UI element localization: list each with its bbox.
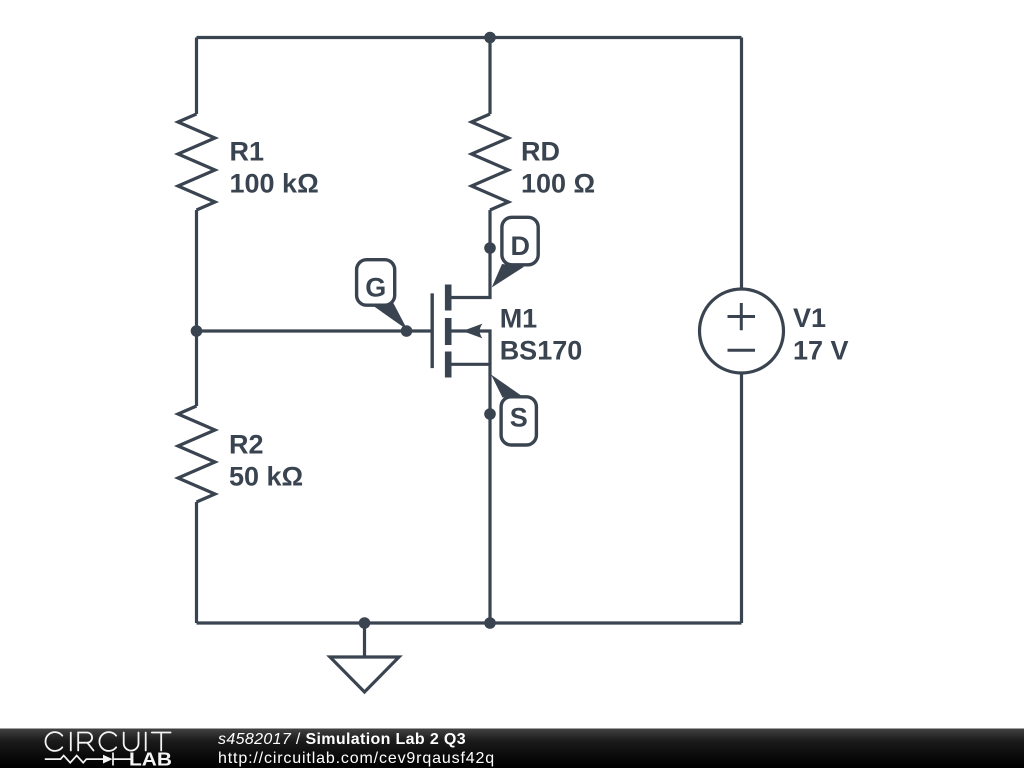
svg-text:100 kΩ: 100 kΩ <box>230 169 319 199</box>
svg-text:R2: R2 <box>229 429 264 459</box>
svg-text:M1: M1 <box>500 304 538 334</box>
voltage source V1 <box>700 289 784 373</box>
resistor R1 <box>178 114 215 210</box>
node dot bottom mid <box>484 617 496 629</box>
node flag S <box>491 375 536 446</box>
svg-text:s4582017 / Simulation Lab 2 Q3: s4582017 / Simulation Lab 2 Q3 <box>218 731 466 748</box>
label RD value <box>521 137 595 199</box>
node dot gate left tap <box>191 325 203 337</box>
svg-text:S: S <box>510 403 528 433</box>
svg-text:R1: R1 <box>230 137 265 167</box>
wire left column middle <box>195 210 198 406</box>
wire right column lower <box>740 373 743 624</box>
transistor M1 <box>432 285 490 378</box>
svg-text:G: G <box>365 272 386 302</box>
resistor R2 <box>178 406 215 502</box>
svg-text:50 kΩ: 50 kΩ <box>229 461 303 491</box>
label R2 value <box>229 429 303 491</box>
label R1 value <box>230 137 319 199</box>
svg-text:V1: V1 <box>793 303 826 333</box>
svg-text:D: D <box>510 231 530 261</box>
logo circuit doodle <box>45 753 131 766</box>
svg-text:100 Ω: 100 Ω <box>521 169 595 199</box>
svg-text:LAB: LAB <box>129 749 172 768</box>
wire gate <box>197 329 433 332</box>
wire right column upper <box>740 38 743 290</box>
wire top rail <box>197 36 742 39</box>
wire bottom rail <box>197 621 742 624</box>
node dot source S <box>484 408 496 420</box>
node dot ground <box>359 617 371 629</box>
wire source <box>448 364 490 623</box>
node dot drain D <box>484 242 496 254</box>
node dot top <box>484 32 496 44</box>
svg-text:RD: RD <box>521 137 560 167</box>
svg-text:BS170: BS170 <box>500 336 583 366</box>
node dot gate G <box>401 325 413 337</box>
wire middle column top <box>488 38 491 115</box>
wire drain <box>448 210 490 298</box>
node flag D <box>492 217 539 287</box>
svg-text:http://circuitlab.com/cev9rqau: http://circuitlab.com/cev9rqausf42q <box>218 750 495 767</box>
node flag G <box>357 260 408 330</box>
wire left column lower <box>195 502 198 623</box>
logo CIRCUIT wordmark <box>46 732 171 751</box>
resistor RD <box>472 114 509 210</box>
wire left column upper <box>195 38 198 115</box>
footer bar <box>0 729 1024 768</box>
svg-text:17 V: 17 V <box>793 336 849 366</box>
label V1 value <box>793 303 849 366</box>
ground <box>363 623 366 657</box>
label M1 value <box>500 304 583 366</box>
